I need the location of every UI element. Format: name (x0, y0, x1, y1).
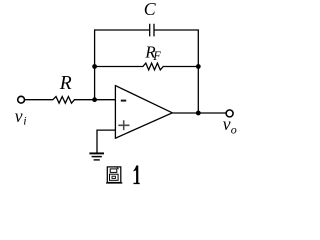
svg-text:F: F (152, 49, 161, 63)
svg-text:i: i (23, 113, 26, 127)
svg-text:R: R (59, 73, 72, 94)
svg-text:o: o (231, 123, 237, 137)
svg-text:v: v (223, 114, 231, 134)
svg-text:C: C (144, 0, 157, 19)
svg-text:v: v (15, 106, 23, 126)
